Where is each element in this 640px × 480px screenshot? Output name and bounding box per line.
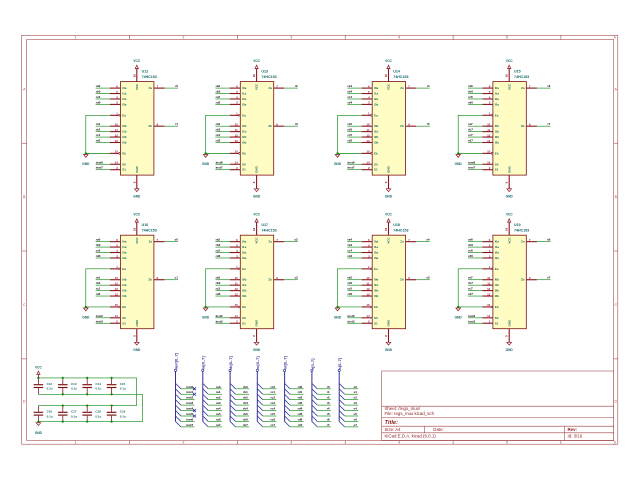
svg-text:s3: s3 xyxy=(294,276,298,280)
svg-text:GND: GND xyxy=(135,165,139,173)
wire inst0 xyxy=(181,388,195,390)
bus entry rc1 xyxy=(257,389,262,394)
svg-text:S0: S0 xyxy=(374,162,378,166)
svg-text:S0: S0 xyxy=(495,316,499,320)
wire inst2 to U19 pin 14 xyxy=(468,317,482,319)
svg-text:rb6: rb6 xyxy=(243,417,248,421)
svg-text:rd0: rd0 xyxy=(96,254,101,258)
svg-text:VCC: VCC xyxy=(253,59,260,63)
svg-text:rc3: rc3 xyxy=(216,287,221,291)
svg-text:Za: Za xyxy=(149,86,153,90)
svg-text:r7: r7 xyxy=(547,122,550,126)
U17 pin names xyxy=(242,236,272,326)
wire rc5 xyxy=(263,415,277,417)
bus rc[0..7] xyxy=(256,369,258,421)
svg-text:11: 11 xyxy=(115,281,118,285)
svg-text:14: 14 xyxy=(115,161,119,165)
svg-text:GND: GND xyxy=(507,165,511,173)
power flag VCC above U16 xyxy=(133,213,140,223)
U13 reference and value 74HC153 xyxy=(261,69,276,79)
svg-text:VCC: VCC xyxy=(135,83,139,90)
wire Ea/Eb enable to ground of U16 xyxy=(86,269,110,307)
power flag VCC above U18 xyxy=(385,213,392,223)
wire rd6 xyxy=(290,420,304,422)
wire rd6 to U19 pin 3 xyxy=(468,257,482,259)
svg-text:I0b: I0b xyxy=(495,124,500,128)
junction caps bottom rail C19 xyxy=(110,420,112,422)
svg-text:r4: r4 xyxy=(327,407,330,411)
bus entry ra5 xyxy=(203,411,208,416)
wire rb2 to U13 pin 5 xyxy=(215,93,229,95)
wire r0 xyxy=(317,388,331,390)
junction at GND cap rail xyxy=(37,420,39,422)
wire ra7 to U15 pin 10 xyxy=(468,125,482,127)
svg-text:GND: GND xyxy=(253,348,261,352)
multiplexer U13 74HC153 symbol body xyxy=(230,68,285,189)
wire rb2 to U17 pin 5 xyxy=(215,246,229,248)
wire ra2 to U13 pin 6 xyxy=(215,87,229,89)
power flag GND at U17 enable pins xyxy=(202,308,210,319)
svg-text:VCC: VCC xyxy=(387,83,391,90)
svg-text:VCC: VCC xyxy=(506,59,513,63)
svg-text:I1b: I1b xyxy=(495,130,500,134)
bus entry rc7 xyxy=(257,421,262,426)
multiplexer U17 74HC153 symbol body xyxy=(230,222,285,342)
svg-text:GND: GND xyxy=(35,431,43,435)
svg-text:ra7: ra7 xyxy=(468,276,473,280)
bus ra[0..7] xyxy=(202,369,204,421)
wire s2 from U17 output xyxy=(284,241,298,243)
svg-text:I1a: I1a xyxy=(374,92,379,96)
wire inst3 xyxy=(181,404,195,406)
bus entry rb5 xyxy=(230,411,235,416)
svg-text:I1a: I1a xyxy=(242,92,247,96)
svg-text:S1: S1 xyxy=(495,168,499,172)
wire ra0 xyxy=(208,388,222,390)
wire s4 xyxy=(345,410,359,412)
svg-text:I2b: I2b xyxy=(242,289,247,293)
svg-text:Ea: Ea xyxy=(242,267,246,271)
wire rb5 xyxy=(236,415,250,417)
U18 inverted-pin bubbles Ea Eb xyxy=(370,268,372,270)
svg-text:U15: U15 xyxy=(514,69,521,73)
svg-text:I2b: I2b xyxy=(374,289,379,293)
power flag VCC above U13 xyxy=(253,59,260,69)
svg-text:15: 15 xyxy=(234,303,238,307)
wire rc1 to U12 pin 12 xyxy=(96,136,110,138)
wire ra2 xyxy=(208,399,222,401)
svg-text:ra1: ra1 xyxy=(216,390,221,394)
svg-text:r0: r0 xyxy=(175,84,178,88)
svg-text:10: 10 xyxy=(234,122,238,126)
svg-text:s2: s2 xyxy=(354,396,358,400)
svg-text:inst6: inst6 xyxy=(96,160,103,164)
svg-text:inst[0..7]: inst[0..7] xyxy=(173,352,178,369)
frame column numbers xyxy=(75,36,616,445)
svg-text:I1b: I1b xyxy=(122,283,127,287)
svg-text:rb5: rb5 xyxy=(243,412,248,416)
wire rc3 xyxy=(263,404,277,406)
U15 pin stubs xyxy=(482,68,537,189)
U17 inverted-pin bubbles Ea Eb xyxy=(239,268,241,270)
svg-text:GND: GND xyxy=(82,315,90,319)
svg-text:I1b: I1b xyxy=(495,283,500,287)
svg-text:rb3: rb3 xyxy=(216,281,221,285)
wire Ea/Eb enable to ground of U17 xyxy=(206,269,230,307)
svg-text:I0b: I0b xyxy=(122,124,127,128)
svg-text:16: 16 xyxy=(384,227,388,231)
svg-text:I2b: I2b xyxy=(122,135,127,139)
bus s[0..7] xyxy=(338,369,340,421)
bus entry inst0 xyxy=(176,383,181,388)
wire s7 xyxy=(345,426,359,428)
wire rd5 to U14 pin 13 xyxy=(347,142,361,144)
svg-text:inst2: inst2 xyxy=(96,314,103,318)
wire rc6 xyxy=(263,420,277,422)
svg-text:rd7: rd7 xyxy=(468,292,473,296)
wire r6 xyxy=(317,420,331,422)
U13 pin numbers xyxy=(234,74,278,184)
U17 pin stubs xyxy=(230,222,285,342)
svg-text:I1a: I1a xyxy=(122,92,127,96)
power flag GND at U14 enable pins xyxy=(334,154,342,165)
svg-text:rc1: rc1 xyxy=(96,287,101,291)
bus rb[0..7] xyxy=(229,369,231,421)
svg-text:0.1u: 0.1u xyxy=(120,387,126,391)
svg-text:74HC153: 74HC153 xyxy=(393,75,408,79)
wire rb7 to U15 pin 11 xyxy=(468,131,482,133)
svg-text:inst6: inst6 xyxy=(468,160,475,164)
svg-text:rc5: rc5 xyxy=(348,287,353,291)
wire s3 from U17 output xyxy=(284,279,298,281)
wire inst3 to U18 pin 2 xyxy=(347,322,361,324)
bus entry rd1 xyxy=(285,389,290,394)
svg-text:I3a: I3a xyxy=(122,256,127,260)
svg-text:S0: S0 xyxy=(374,316,378,320)
svg-text:Ea: Ea xyxy=(374,267,378,271)
svg-text:Rev:: Rev: xyxy=(568,427,578,432)
wire s3 xyxy=(345,404,359,406)
svg-text:ra0: ra0 xyxy=(96,84,101,88)
svg-text:rb0: rb0 xyxy=(96,243,101,247)
bus entry rb2 xyxy=(230,394,235,399)
power flag GND below U18 xyxy=(385,342,393,352)
wire rc3 to U13 pin 12 xyxy=(215,136,229,138)
svg-text:inst7: inst7 xyxy=(186,423,193,427)
svg-text:10: 10 xyxy=(115,122,119,126)
svg-text:Zb: Zb xyxy=(268,124,272,128)
svg-text:GND: GND xyxy=(202,162,210,166)
svg-text:I3b: I3b xyxy=(122,294,127,298)
power flag GND below U14 xyxy=(385,189,393,199)
svg-text:0.1u: 0.1u xyxy=(71,387,77,391)
wire s6 from U19 output xyxy=(537,241,551,243)
svg-text:I2a: I2a xyxy=(374,251,379,255)
svg-text:10: 10 xyxy=(234,276,238,280)
svg-text:ra5: ra5 xyxy=(348,122,353,126)
wire inst3 to U17 pin 2 xyxy=(215,322,229,324)
junction caps top rail C18 xyxy=(86,404,88,406)
wire rb3 to U13 pin 11 xyxy=(215,131,229,133)
wire rd5 xyxy=(290,415,304,417)
bus entry rc0 xyxy=(257,383,262,388)
multiplexer U18 74HC153 symbol body xyxy=(362,222,417,342)
wire s2 xyxy=(345,399,359,401)
no-connect flag inst1 xyxy=(193,393,196,396)
svg-text:r3: r3 xyxy=(295,122,298,126)
svg-text:C16: C16 xyxy=(47,410,53,414)
wire ra0 to U16 pin 6 xyxy=(96,241,110,243)
svg-text:rb3: rb3 xyxy=(216,128,221,132)
svg-text:rd4: rd4 xyxy=(298,407,303,411)
wire inst2 to U16 pin 14 xyxy=(96,317,110,319)
svg-text:6: 6 xyxy=(614,36,616,40)
wire Ea/Eb enable to ground of U14 xyxy=(338,115,362,153)
svg-text:GND: GND xyxy=(385,195,393,199)
svg-text:14: 14 xyxy=(487,314,491,318)
svg-text:I3b: I3b xyxy=(122,141,127,145)
svg-text:Eb: Eb xyxy=(242,151,246,155)
bus entry s3 xyxy=(339,400,344,405)
svg-text:2: 2 xyxy=(182,36,184,40)
svg-text:ra3: ra3 xyxy=(216,401,221,405)
wire r7 xyxy=(317,426,331,428)
svg-text:Ea: Ea xyxy=(122,267,126,271)
svg-text:I1b: I1b xyxy=(374,130,379,134)
svg-text:inst6: inst6 xyxy=(186,417,193,421)
svg-text:3: 3 xyxy=(290,36,292,40)
svg-text:rd7: rd7 xyxy=(468,139,473,143)
svg-text:ra4: ra4 xyxy=(216,407,221,411)
svg-text:0.1u: 0.1u xyxy=(71,414,77,418)
multiplexer U19 74HC153 symbol body xyxy=(482,222,537,342)
svg-text:ra2: ra2 xyxy=(216,396,221,400)
capacitor C16 0.1u xyxy=(34,406,53,422)
svg-text:rc6: rc6 xyxy=(468,95,473,99)
svg-text:16: 16 xyxy=(252,74,256,78)
wire rb0 to U16 pin 5 xyxy=(96,246,110,248)
wire Ea/Eb enable to ground of U12 xyxy=(86,115,110,153)
power flag GND below U17 xyxy=(253,342,261,352)
wire inst6 to U15 pin 14 xyxy=(468,163,482,165)
wire inst6 to U12 pin 14 xyxy=(96,163,110,165)
bus entry inst2 xyxy=(176,394,181,399)
U16 reference and value 74HC153 xyxy=(142,223,157,233)
svg-text:I0a: I0a xyxy=(122,240,127,244)
U12 inverted-pin bubbles Ea Eb xyxy=(119,114,121,116)
bus entry inst5 xyxy=(176,411,181,416)
wire inst2 to U17 pin 14 xyxy=(215,317,229,319)
bus rd[0..7] xyxy=(284,369,286,421)
svg-text:10: 10 xyxy=(366,122,370,126)
svg-text:rb3: rb3 xyxy=(243,401,248,405)
power flag GND below U19 xyxy=(506,342,514,352)
svg-text:rc4: rc4 xyxy=(348,95,353,99)
svg-text:S0: S0 xyxy=(242,162,246,166)
svg-text:11: 11 xyxy=(487,128,490,132)
wire inst1 xyxy=(181,393,195,395)
svg-text:Zb: Zb xyxy=(268,278,272,282)
svg-text:14: 14 xyxy=(366,161,370,165)
wire r4 from U14 output xyxy=(416,87,430,89)
wire rb4 to U14 pin 5 xyxy=(347,93,361,95)
svg-text:rc0: rc0 xyxy=(96,95,101,99)
svg-text:rc3: rc3 xyxy=(216,133,221,137)
svg-text:inst2: inst2 xyxy=(216,314,223,318)
svg-text:1: 1 xyxy=(75,441,77,445)
wire ra5 to U18 pin 10 xyxy=(347,279,361,281)
svg-text:0.1u: 0.1u xyxy=(95,387,101,391)
svg-text:Ea: Ea xyxy=(495,113,499,117)
bus entry rd0 xyxy=(285,383,290,388)
wire rd0 to U16 pin 3 xyxy=(96,257,110,259)
U13 inverted-pin bubbles Ea Eb xyxy=(239,114,241,116)
power flag GND at U16 enable pins xyxy=(82,308,90,319)
svg-text:inst2: inst2 xyxy=(348,314,355,318)
svg-text:I3a: I3a xyxy=(374,102,379,106)
svg-text:rb5: rb5 xyxy=(348,128,353,132)
svg-text:I2a: I2a xyxy=(374,97,379,101)
svg-text:15: 15 xyxy=(366,150,370,154)
bus entry r3 xyxy=(312,400,317,405)
bus entry ra0 xyxy=(203,383,208,388)
svg-text:ra0: ra0 xyxy=(216,385,221,389)
svg-text:s1: s1 xyxy=(175,276,179,280)
svg-text:S0: S0 xyxy=(122,316,126,320)
svg-text:ra4: ra4 xyxy=(348,238,353,242)
wire inst3 to U16 pin 2 xyxy=(96,322,110,324)
svg-text:inst3: inst3 xyxy=(468,319,475,323)
svg-text:VCC: VCC xyxy=(507,83,511,90)
svg-text:VCC: VCC xyxy=(385,213,392,217)
bus entry rb3 xyxy=(230,400,235,405)
svg-text:rb1: rb1 xyxy=(96,281,101,285)
wire rb3 xyxy=(236,404,250,406)
wire rc7 to U19 pin 12 xyxy=(468,290,482,292)
wire ra6 to U19 pin 6 xyxy=(468,241,482,243)
wire rc2 xyxy=(263,399,277,401)
svg-text:5: 5 xyxy=(506,36,508,40)
svg-text:VCC: VCC xyxy=(387,236,391,243)
multiplexer U14 74HC153 symbol body xyxy=(362,68,417,189)
svg-text:GND: GND xyxy=(387,319,391,327)
svg-text:10: 10 xyxy=(366,276,370,280)
svg-text:I1a: I1a xyxy=(374,245,379,249)
svg-text:Ea: Ea xyxy=(374,113,378,117)
svg-text:inst7: inst7 xyxy=(468,166,475,170)
svg-text:GND: GND xyxy=(334,315,342,319)
power flag GND at U15 enable pins xyxy=(455,154,463,165)
svg-text:13: 13 xyxy=(487,139,491,143)
svg-text:0.1u: 0.1u xyxy=(47,414,53,418)
svg-text:rc0: rc0 xyxy=(96,249,101,253)
svg-text:C12: C12 xyxy=(47,382,53,386)
svg-text:VCC: VCC xyxy=(507,236,511,243)
svg-text:r0: r0 xyxy=(327,385,330,389)
svg-text:Title:: Title: xyxy=(385,420,399,426)
svg-text:16: 16 xyxy=(505,227,509,231)
svg-text:13: 13 xyxy=(234,139,238,143)
junction at U19 enable net xyxy=(457,306,459,308)
svg-text:rb[0..7]: rb[0..7] xyxy=(228,355,233,369)
wire s0 xyxy=(345,388,359,390)
wire rc2 to U13 pin 4 xyxy=(215,98,229,100)
junction at U13 enable net xyxy=(204,152,206,154)
svg-text:rb2: rb2 xyxy=(216,243,221,247)
svg-text:GND: GND xyxy=(455,162,463,166)
bus entry rb4 xyxy=(230,405,235,410)
wire rb4 xyxy=(236,410,250,412)
svg-text:11: 11 xyxy=(235,128,238,132)
title block text xyxy=(385,406,583,439)
svg-text:14: 14 xyxy=(234,314,238,318)
svg-text:Ea: Ea xyxy=(495,267,499,271)
svg-text:ra2: ra2 xyxy=(216,238,221,242)
svg-text:C13: C13 xyxy=(71,382,77,386)
wire rc0 to U16 pin 4 xyxy=(96,252,110,254)
svg-text:Zb: Zb xyxy=(148,124,152,128)
U14 pin names xyxy=(374,83,404,173)
svg-text:C18: C18 xyxy=(95,410,101,414)
svg-text:Date:: Date: xyxy=(433,427,444,432)
svg-text:S0: S0 xyxy=(495,162,499,166)
svg-text:rd5: rd5 xyxy=(348,139,353,143)
svg-text:11: 11 xyxy=(367,128,370,132)
bus entry rb1 xyxy=(230,389,235,394)
svg-text:rd0: rd0 xyxy=(96,100,101,104)
svg-text:ra[0..7]: ra[0..7] xyxy=(201,356,206,370)
wire r6 from U15 output xyxy=(537,87,551,89)
svg-text:S1: S1 xyxy=(374,321,378,325)
svg-text:s1: s1 xyxy=(354,390,358,394)
svg-text:r[0..7]: r[0..7] xyxy=(310,358,315,370)
junction at U17 enable net xyxy=(204,306,206,308)
U18 pin numbers xyxy=(366,227,410,336)
svg-text:VCC: VCC xyxy=(255,236,259,243)
svg-text:rd5: rd5 xyxy=(298,412,303,416)
bus entry r6 xyxy=(312,416,317,421)
svg-text:4: 4 xyxy=(398,441,400,445)
svg-text:15: 15 xyxy=(115,303,119,307)
power flag GND at U19 enable pins xyxy=(455,308,463,319)
svg-text:r4: r4 xyxy=(427,84,430,88)
wire r5 from U14 output xyxy=(416,125,430,127)
svg-text:U18: U18 xyxy=(393,223,400,227)
svg-text:4: 4 xyxy=(398,36,400,40)
svg-text:S1: S1 xyxy=(242,321,246,325)
svg-text:S1: S1 xyxy=(495,321,499,325)
bus entry r7 xyxy=(312,421,317,426)
svg-text:inst4: inst4 xyxy=(186,407,193,411)
wire ra4 to U14 pin 6 xyxy=(347,87,361,89)
wire rd1 to U12 pin 13 xyxy=(96,142,110,144)
power flag VCC above U17 xyxy=(253,213,260,223)
bus entry rc4 xyxy=(257,405,262,410)
junction at U15 enable net xyxy=(457,152,459,154)
svg-text:rd5: rd5 xyxy=(348,292,353,296)
svg-text:I0b: I0b xyxy=(374,124,379,128)
svg-text:11: 11 xyxy=(487,281,490,285)
U14 pin stubs xyxy=(362,68,417,189)
U14 pin numbers xyxy=(366,74,410,184)
capacitor C15 0.1u xyxy=(107,378,126,394)
wire s7 from U19 output xyxy=(537,279,551,281)
wire rb7 to U19 pin 11 xyxy=(468,284,482,286)
svg-text:rc2: rc2 xyxy=(216,95,221,99)
svg-text:ra5: ra5 xyxy=(348,276,353,280)
svg-text:rd6: rd6 xyxy=(468,100,473,104)
svg-text:rb7: rb7 xyxy=(243,423,248,427)
